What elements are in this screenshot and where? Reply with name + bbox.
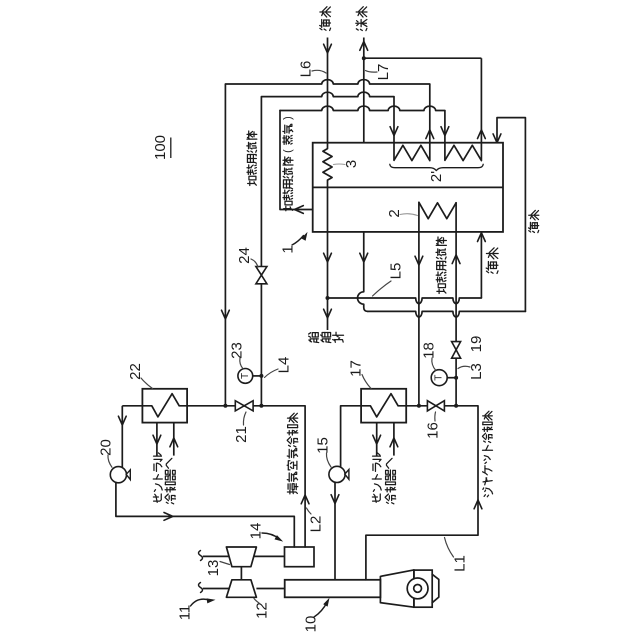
svg-text:23: 23 [229, 342, 246, 359]
central cooler 17 box [361, 389, 406, 423]
temperature sensor 18 [447, 377, 456, 379]
wire drop from header 3 into coil 2-prime second section [444, 111, 446, 161]
wire turbine 13 to air cooler 14 [254, 555, 285, 557]
heater coil 3 zigzag [323, 143, 332, 188]
temperature sensor 23 [253, 375, 262, 377]
wire riser from coil 2-prime to header 1 [429, 84, 431, 160]
wire trunk from header 2 down through valve 24 [260, 97, 262, 406]
svg-text:18: 18 [421, 342, 438, 359]
svg-text:L2: L2 [308, 516, 325, 533]
cooler 17 stub return [393, 423, 395, 456]
valve 21 [235, 401, 244, 411]
wire feed riser into evaporator bottom [480, 232, 482, 298]
wire L1 jacket water riser [366, 406, 478, 580]
node junction dot brine/feed [326, 296, 330, 300]
label heating fluid 加熱用流体 left [247, 131, 257, 186]
evaporator unit 1 outer shell [313, 143, 503, 232]
turbo shaft [240, 567, 242, 580]
underbrace for 2-prime [390, 164, 483, 170]
engine flywheel cap [432, 574, 439, 602]
label seawater 海水 right [529, 210, 539, 232]
label jacket cooling water ジャケット冷却水 [483, 411, 493, 497]
wire L7 freshwater outlet line [363, 38, 365, 59]
wire evaporator outlet drop with hop over line A [358, 232, 368, 312]
wire jacket water return riser from coil 2 right [455, 202, 457, 341]
wire heating fluid supply header line 2 [261, 92, 394, 96]
node junction dot 456-bus [454, 404, 458, 408]
svg-text:22: 22 [127, 363, 144, 380]
valve 24 [256, 267, 267, 284]
svg-text:3: 3 [343, 160, 360, 168]
wire bus HX22 right to L2 corner [187, 405, 305, 407]
svg-text:): ) [282, 116, 294, 120]
svg-text:1: 1 [280, 245, 297, 253]
svg-text:2': 2' [428, 171, 445, 182]
svg-text:19: 19 [468, 336, 485, 353]
central cooler 17 zigzag [361, 394, 406, 417]
wire L2 riser from air cooler 14 to bus [304, 406, 306, 547]
valve 16 [427, 401, 436, 411]
wire feed line A to evaporator seawater inlet [328, 298, 482, 304]
label heating fluid 加熱用流体 center [436, 237, 446, 294]
wire fresh water drop to evaporator top [363, 58, 365, 143]
svg-text:11: 11 [177, 605, 194, 621]
node seawater inlet label 海水 [320, 7, 331, 31]
svg-text:13: 13 [205, 560, 222, 577]
wire line B to seawater riser [368, 311, 526, 317]
svg-text:16: 16 [425, 422, 442, 439]
svg-text:12: 12 [254, 602, 271, 619]
label to central cooler セントラル冷却器へ right [372, 453, 381, 502]
pump 20 [110, 467, 126, 483]
node junction dot trunk2-bus [259, 404, 263, 408]
wire L7 horizontal run [364, 57, 482, 59]
svg-text:2: 2 [386, 209, 403, 217]
cooler 22 stub to central cooler out [156, 423, 158, 456]
svg-text:10: 10 [303, 616, 320, 633]
wire compressor air stub [203, 588, 229, 590]
label scavenge air cooling water 掃気空気冷却水 [287, 413, 298, 494]
engine 10 body [285, 580, 381, 598]
node junction dot 419-bus [417, 404, 421, 408]
svg-text:20: 20 [98, 439, 115, 456]
label to central cooler セントラル冷却器へ left [153, 453, 162, 502]
svg-text:L1: L1 [452, 555, 469, 572]
wire L6 seawater inlet line [327, 38, 329, 143]
svg-text:L5: L5 [388, 263, 405, 280]
wire brine discharge line [327, 187, 329, 330]
svg-text:14: 14 [248, 523, 265, 540]
engine flywheel drum [414, 570, 432, 607]
valve 19 [452, 342, 461, 350]
compressor 12 trapezoid [226, 580, 256, 598]
wire heating fluid return header line 1 [225, 80, 429, 84]
turbine 13 trapezoid [226, 547, 256, 567]
svg-text:21: 21 [233, 426, 250, 443]
svg-text:(: ( [282, 149, 294, 153]
wire pump20 discharge to air cooler 14 [116, 482, 294, 547]
seawater feed into condenser top right [497, 118, 525, 312]
svg-text:T: T [434, 375, 445, 381]
svg-text:100: 100 [152, 135, 169, 160]
pump 15 [329, 466, 345, 482]
wire pump20 suction drop [121, 406, 123, 467]
svg-text:15: 15 [315, 437, 332, 454]
wire riser continues below valve 19 [455, 358, 457, 406]
heating coil 2 zigzag in lower chamber [419, 202, 456, 218]
wire compressor 12 to engine [256, 588, 284, 590]
wire pump15 discharge to engine [334, 482, 336, 580]
central cooler 22 box [142, 389, 187, 423]
cooler 22 stub from central cooler in [173, 423, 175, 456]
node freshwater outlet label 淡水 [356, 7, 367, 31]
air cooler 14 box [285, 547, 315, 567]
wire jacket water supply drop from coil 2 left [418, 202, 420, 405]
wire pump15 suction from HX17 [341, 406, 362, 467]
condenser coil 2-prime section A zigzag [394, 145, 430, 160]
wire drop from header 2 into coil 2-prime [393, 97, 395, 161]
node junction dot L7 [362, 56, 366, 60]
wire bus HX17 right segment [406, 405, 478, 407]
wire bus HX22 to corner left [122, 405, 142, 407]
node junction dot trunk1-bus [223, 404, 227, 408]
node outboard label 船舶外 [309, 332, 344, 342]
svg-text:T: T [240, 373, 251, 379]
engine flywheel cone [380, 570, 414, 607]
label heating fluid steam 加熱用流体(蒸気) [282, 116, 294, 211]
engine flywheel circles [407, 578, 428, 599]
label seawater 海水 feed [486, 248, 498, 274]
wire steam vapor header line 3 [280, 106, 445, 110]
svg-text:24: 24 [236, 247, 253, 264]
wire shell internal divider [313, 186, 503, 188]
svg-text:L6: L6 [298, 61, 315, 78]
svg-text:L3: L3 [468, 363, 485, 380]
condenser coil 2-prime section B zigzag [445, 145, 482, 160]
wire turbine exhaust stub [203, 555, 229, 557]
svg-text:L4: L4 [276, 357, 293, 374]
wire condensate riser from condenser 2-prime [480, 58, 482, 160]
wire trunk from header 1 down to cooler bus [224, 84, 226, 406]
wire steam line from header 3 down to evaporator [280, 111, 313, 210]
cooler 17 stub to central cooler [376, 423, 378, 456]
central cooler 22 zigzag [142, 394, 187, 417]
